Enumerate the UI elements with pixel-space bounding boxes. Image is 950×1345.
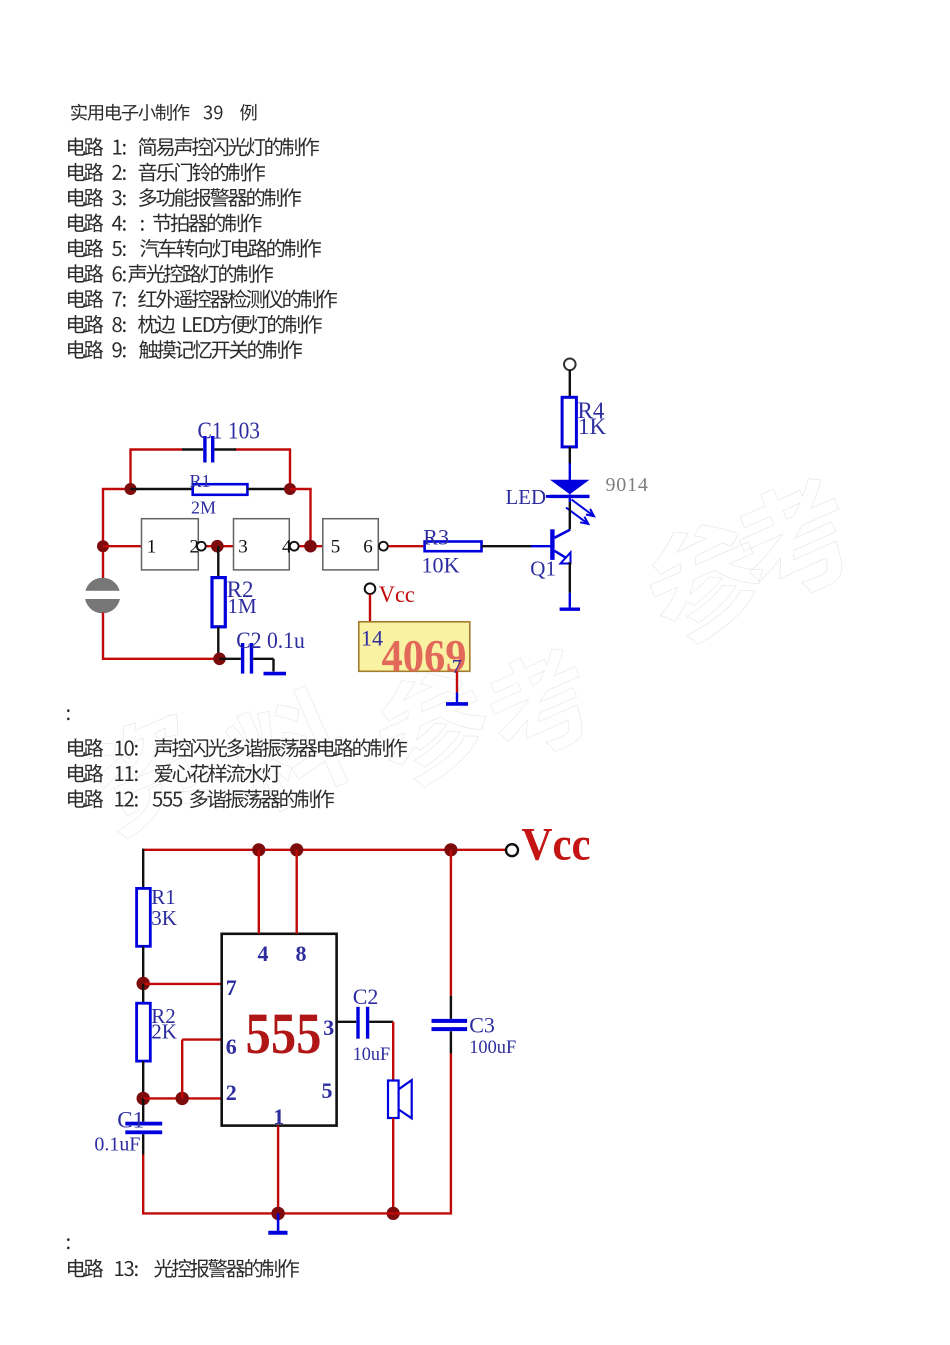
ground C2: [264, 672, 287, 676]
wire terminal to R4: [569, 370, 571, 397]
wire R2 to bottom: [217, 627, 219, 659]
node R1 left: [125, 483, 137, 495]
wire R3 to base: [482, 545, 532, 547]
wire R1 left lead: [131, 488, 193, 490]
svg-text:5: 5: [322, 1078, 333, 1103]
svg-text:Q1: Q1: [530, 557, 556, 581]
node rail pin4: [252, 843, 265, 856]
terminal Vcc s1: [365, 583, 376, 594]
capacitor C3: [432, 1019, 468, 1031]
resistor R1: [193, 484, 248, 495]
wire C3 branch bottom: [450, 1031, 452, 1053]
svg-text:C2: C2: [353, 984, 379, 1009]
svg-text:C1: C1: [117, 1108, 144, 1133]
node pin2 mid: [176, 1092, 189, 1105]
speaker LS1: [388, 1080, 412, 1118]
svg-text:14: 14: [361, 626, 383, 651]
resistor R3: [425, 542, 482, 552]
svg-text:2K: 2K: [151, 1020, 177, 1044]
wire R1 to node7: [142, 946, 144, 983]
list item 9: [68, 340, 302, 359]
terminal top: [564, 359, 576, 371]
svg-text:R1: R1: [190, 471, 211, 491]
node speaker rail: [387, 1207, 400, 1220]
svg-text:5: 5: [331, 536, 341, 557]
ground 4069: [446, 702, 468, 706]
bubble gate1 output: [197, 542, 206, 551]
node A: [211, 540, 224, 553]
list item 8: [68, 315, 322, 334]
node pin2 left: [137, 1092, 150, 1105]
wire emitter to ground: [569, 562, 571, 593]
svg-text:6: 6: [363, 536, 373, 557]
list item 7: [68, 289, 337, 308]
list item 10: [68, 738, 407, 757]
microphone MIC: [83, 578, 122, 614]
node rail C3: [444, 843, 457, 856]
svg-text:R3: R3: [423, 525, 449, 550]
svg-text:3: 3: [238, 536, 248, 557]
node C2 junction: [213, 653, 226, 666]
svg-text:0.1uF: 0.1uF: [94, 1134, 140, 1156]
svg-text:1: 1: [273, 1104, 284, 1129]
svg-text:6: 6: [226, 1034, 237, 1059]
wire left column: [102, 488, 104, 579]
wire to C2: [220, 658, 241, 660]
wire C1 top lead: [142, 1098, 144, 1121]
wire R1 row left: [102, 488, 131, 490]
wire left column top: [142, 849, 144, 889]
list item 6: [68, 264, 273, 283]
svg-text:Vcc: Vcc: [522, 819, 591, 871]
wire C1 top-right: [289, 450, 291, 490]
list item 5: [68, 239, 321, 258]
wire pin3: [337, 1021, 357, 1023]
list item 12: [68, 789, 334, 808]
LED D1: [550, 480, 590, 502]
IC 4069 box: [359, 622, 470, 672]
svg-text:Vcc: Vcc: [379, 582, 415, 607]
wire Vcc to 4069: [369, 594, 371, 622]
wire R1 right lead: [247, 488, 290, 490]
wire LED to collector: [569, 502, 571, 529]
ground Q1: [560, 608, 580, 611]
list item 1: [68, 137, 319, 156]
IC 555 box: [222, 934, 337, 1126]
wire node A to R2: [217, 546, 219, 577]
colon line 1: [67, 709, 70, 720]
list item 11: [68, 764, 281, 783]
wire C1 bottom lead: [142, 1134, 144, 1154]
resistor R2 s2: [137, 1003, 151, 1061]
wire mic to bottom: [102, 613, 104, 659]
list item 4: [68, 213, 261, 232]
svg-text:4: 4: [258, 941, 269, 966]
wire gate3 to R3: [389, 545, 425, 547]
node pin7: [137, 977, 150, 990]
resistor R4: [562, 397, 576, 447]
wire pin2 row: [143, 1097, 222, 1099]
svg-text:1M: 1M: [228, 594, 258, 618]
wire R2 top: [142, 984, 144, 1004]
list item 3: [68, 188, 301, 207]
inverter gate U1C: [323, 519, 379, 570]
ground 555: [268, 1231, 287, 1235]
watermark: [79, 468, 865, 842]
svg-text:C3: C3: [469, 1013, 495, 1038]
wire gate1-gate2: [207, 545, 234, 547]
svg-text:1: 1: [147, 536, 157, 557]
title text: [71, 104, 256, 121]
wire 4069 to ground: [456, 671, 458, 692]
LED arrows: [566, 500, 594, 525]
node R1 right: [284, 483, 296, 495]
bubble gate2 output: [290, 542, 299, 551]
transistor Q1: [550, 529, 570, 563]
svg-text:3: 3: [323, 1015, 334, 1040]
capacitor C1 s2: [125, 1122, 162, 1135]
wire C2 to ground: [253, 658, 273, 660]
colon line 2: [67, 1238, 70, 1249]
resistor R2: [212, 578, 225, 627]
capacitor C2a: [241, 643, 253, 674]
wire pin4 stub: [258, 850, 260, 934]
wire pin6: [182, 1038, 222, 1040]
svg-text:LED: LED: [506, 485, 547, 509]
inverter gate U1B: [234, 519, 290, 570]
list item 13: [68, 1259, 299, 1278]
svg-text:3K: 3K: [151, 906, 177, 930]
wire C3 branch top: [450, 850, 452, 996]
wire C1 top-left: [129, 450, 131, 490]
wire pin8 stub: [296, 850, 298, 934]
wire C2 to speaker: [369, 1021, 393, 1023]
bubble gate3 output: [379, 542, 388, 551]
inverter gate U1A: [142, 519, 199, 570]
svg-text:2M: 2M: [191, 498, 216, 518]
wire speaker to rail: [392, 1118, 394, 1213]
svg-text:7: 7: [226, 975, 237, 1000]
wire R2 to node2: [142, 1061, 144, 1098]
capacitor C1: [203, 436, 214, 463]
svg-text:8: 8: [296, 941, 307, 966]
wire C1 leads: [182, 448, 203, 450]
wire pin7: [143, 983, 222, 985]
node B: [304, 540, 317, 553]
wire gnd stub: [277, 1213, 280, 1231]
node pin1 rail: [271, 1207, 284, 1220]
svg-text:C1 103: C1 103: [198, 419, 261, 445]
node gate1 input: [97, 540, 109, 552]
svg-text:1K: 1K: [578, 414, 607, 439]
resistor R1 s2: [137, 888, 151, 946]
svg-text:100uF: 100uF: [469, 1037, 516, 1058]
top rail: [142, 849, 506, 851]
svg-text:10uF: 10uF: [353, 1044, 391, 1065]
svg-text:10K: 10K: [422, 552, 460, 577]
svg-text:9014: 9014: [606, 474, 649, 496]
bottom rail: [142, 1212, 452, 1214]
capacitor C2 s2: [356, 1007, 369, 1039]
list item 2: [68, 163, 265, 182]
terminal Vcc s2: [506, 844, 518, 856]
svg-text:2: 2: [226, 1080, 237, 1105]
wire pin1 stub: [277, 1126, 279, 1214]
wire R4 to LED: [569, 447, 571, 463]
svg-text:555: 555: [246, 1001, 322, 1066]
node rail pin8: [290, 843, 303, 856]
wire R1 row right: [290, 488, 312, 490]
wire gate2-gate3: [299, 545, 323, 547]
wire input gate1: [103, 545, 142, 547]
svg-text:C2 0.1u: C2 0.1u: [236, 628, 305, 653]
